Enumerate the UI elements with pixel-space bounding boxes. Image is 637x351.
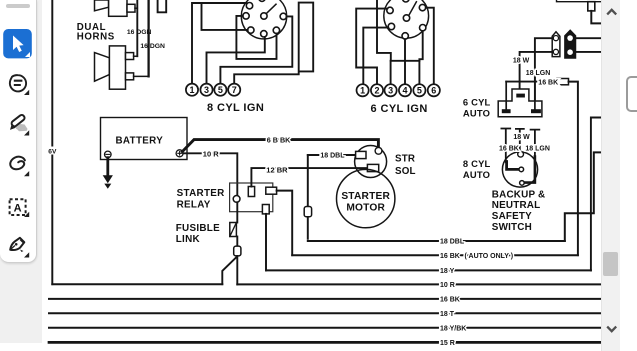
node 6 (6cyl) — [428, 84, 440, 96]
tool comment — [10, 75, 29, 95]
svg-text:16 BK: 16 BK — [440, 297, 460, 304]
svg-text:BATTERY: BATTERY — [116, 136, 164, 147]
wire 10 R (battery + to starter relay) — [183, 153, 237, 195]
svg-text:SOL: SOL — [395, 166, 416, 177]
label 16BK upper — [538, 79, 558, 86]
label 16 DGN first — [127, 29, 152, 36]
connector on 18DBL wire — [304, 207, 311, 217]
label 8 CYL AUTO — [463, 158, 491, 180]
resistor R1 — [557, 79, 569, 85]
label 18 DBL — [320, 152, 345, 159]
svg-text:18 DBL: 18 DBL — [440, 239, 465, 246]
label BATTERY — [116, 136, 164, 147]
svg-text:10 R: 10 R — [440, 282, 455, 289]
wire 18 DBL horizontal — [308, 154, 356, 156]
label 16 BK bus — [440, 297, 460, 304]
node 7 (8cyl) — [228, 84, 240, 96]
svg-text:18 LGN: 18 LGN — [526, 70, 551, 77]
bus wire 15 R — [49, 341, 602, 344]
8cyl ignition wires — [192, 3, 313, 84]
label 18LGN lower — [525, 145, 550, 152]
terminal on top box — [588, 2, 595, 11]
svg-text:16 BK: 16 BK — [538, 79, 558, 86]
label BACKUP & NEUTRAL SAFETY SWITCH — [492, 189, 546, 232]
label 12 BR — [266, 166, 288, 175]
node 5 (8cyl) — [214, 84, 226, 96]
node 2 (6cyl) — [371, 84, 383, 96]
label 6V — [48, 149, 57, 156]
label DUAL HORNS — [77, 22, 115, 42]
label STARTER MOTOR — [341, 191, 390, 213]
bus wire 18 Y — [266, 269, 591, 271]
wire 16 BK with resistor — [506, 81, 557, 83]
label 18W upper — [513, 58, 530, 65]
bus wire 18 Y/BK — [49, 327, 602, 329]
node 4 (6cyl) — [399, 84, 411, 96]
bus wire 18 DBL — [308, 240, 565, 242]
svg-text:12 BR: 12 BR — [266, 166, 288, 175]
label 15 R bus — [440, 340, 455, 347]
svg-text:FUSIBLE: FUSIBLE — [176, 223, 220, 234]
tool text box — [10, 199, 30, 217]
svg-text:16 DGN: 16 DGN — [140, 43, 165, 50]
node 5 (6cyl) — [413, 84, 425, 96]
svg-text:16 BK: 16 BK — [499, 145, 519, 152]
bus wire 18 T — [49, 312, 602, 314]
svg-text:NEUTRAL: NEUTRAL — [492, 200, 541, 211]
svg-text:STARTER: STARTER — [341, 191, 390, 202]
label 18 Y/BK bus — [440, 325, 466, 332]
starter solenoid U2 — [355, 146, 387, 178]
label 16BK lower — [499, 145, 519, 152]
svg-text:18 T: 18 T — [440, 311, 455, 318]
node 3 (6cyl) — [385, 84, 397, 96]
svg-text:1: 1 — [189, 85, 194, 95]
svg-text:18 DBL: 18 DBL — [320, 152, 345, 159]
wire 6V feed vertical — [51, 0, 53, 284]
connector P2 (male, solid) — [565, 30, 576, 58]
wire horn feed 2 — [147, 0, 149, 76]
6cyl ignition wires — [356, 0, 434, 84]
node 3 (8cyl) — [200, 84, 212, 96]
svg-text:2: 2 — [374, 86, 379, 96]
svg-text:STARTER: STARTER — [177, 188, 225, 199]
6cyl auto neutral switch S1 — [498, 76, 542, 117]
svg-text:5: 5 — [417, 86, 422, 96]
svg-text:4: 4 — [402, 86, 407, 96]
svg-text:7: 7 — [232, 85, 237, 95]
label 10 R bus — [440, 282, 455, 289]
svg-text:STR: STR — [395, 154, 415, 165]
top right box stub — [557, 0, 603, 2]
wire 16 BK to auto-only bus — [569, 82, 578, 256]
svg-text:18 W: 18 W — [513, 58, 530, 65]
wire from top terminal to right edge — [591, 11, 602, 24]
wire horn feed 1 — [136, 0, 138, 56]
tool lasso — [10, 157, 29, 177]
starter relay K1 — [230, 183, 277, 214]
starter motor M1 — [337, 169, 395, 227]
wire 18 DBL riser — [307, 155, 309, 239]
bus wire 16 BK auto only — [292, 254, 578, 256]
label 18 T bus — [440, 311, 455, 318]
svg-text:8 CYL IGN: 8 CYL IGN — [207, 102, 264, 114]
horn H2 (bottom) — [95, 46, 149, 89]
svg-text:16 DGN: 16 DGN — [127, 29, 152, 36]
svg-text:( AUTO ONLY ): ( AUTO ONLY ) — [465, 253, 514, 260]
svg-text:AUTO: AUTO — [463, 169, 490, 180]
label 16 DGN second — [140, 43, 165, 50]
label 6 CYL IGN — [371, 103, 428, 115]
svg-text:18 Y/BK: 18 Y/BK — [440, 325, 466, 332]
wire relay to 18 Y bus — [265, 214, 267, 271]
8cyl distributor cap — [241, 0, 286, 39]
svg-text:6 CYL IGN: 6 CYL IGN — [371, 103, 428, 115]
svg-text:LINK: LINK — [176, 234, 201, 245]
label 8 CYL IGN — [207, 102, 264, 114]
wire 10R to bus with branch — [222, 256, 237, 285]
wire 18Y right riser — [591, 118, 602, 271]
wire below fusible link — [236, 237, 238, 247]
svg-text:6 CYL: 6 CYL — [463, 97, 491, 108]
connector on 10R wire — [234, 246, 241, 256]
svg-text:6 B BK: 6 B BK — [267, 136, 291, 145]
svg-text:RELAY: RELAY — [177, 200, 211, 211]
svg-text:18 Y: 18 Y — [440, 268, 455, 275]
wire 12 BR (relay to solenoid) — [251, 168, 367, 186]
svg-text:BACKUP &: BACKUP & — [492, 189, 546, 200]
svg-text:10 R: 10 R — [203, 149, 219, 158]
label 6 CYL AUTO — [463, 97, 491, 119]
svg-text:18 W: 18 W — [513, 134, 530, 141]
label 10 R — [203, 149, 219, 158]
ground symbol — [103, 158, 113, 189]
label 18LGN upper — [526, 70, 551, 77]
fusible link F1 — [230, 223, 237, 237]
svg-text:HORNS: HORNS — [77, 31, 115, 42]
label 6 B BK — [267, 136, 291, 145]
bus wire 16 BK — [49, 298, 602, 300]
svg-text:16 BK: 16 BK — [440, 253, 460, 260]
svg-text:AUTO: AUTO — [463, 108, 490, 119]
svg-text:18 LGN: 18 LGN — [525, 145, 550, 152]
connector P2 to right edge wires — [576, 38, 603, 52]
wire relay to 16 BK bus — [277, 191, 293, 256]
label 16 BK auto only — [440, 253, 513, 260]
label STR SOL — [395, 154, 416, 178]
label 18W lower — [513, 134, 530, 141]
horn relay bottom stub — [158, 0, 167, 12]
svg-text:5: 5 — [218, 85, 223, 95]
tool signature pen — [10, 238, 29, 258]
svg-text:3: 3 — [388, 86, 393, 96]
node 1 (6cyl) — [357, 84, 369, 96]
wire 18DBL right riser — [565, 152, 602, 241]
wire 6 B BK (battery + to solenoid, heavy) — [182, 140, 378, 152]
wire 10R through relay — [236, 202, 238, 222]
horn H1 (top, cut off) — [95, 0, 138, 16]
node 1 (8cyl) — [186, 84, 198, 96]
label FUSIBLE LINK — [176, 223, 220, 245]
8cyl auto wire stubs with T-bars — [501, 129, 539, 163]
svg-text:1: 1 — [360, 86, 365, 96]
tool pencil — [10, 114, 29, 136]
bus wire 10 R — [52, 283, 601, 285]
label STARTER RELAY — [177, 188, 225, 210]
svg-text:SAFETY: SAFETY — [492, 211, 532, 222]
label 18 Y bus — [440, 268, 455, 275]
6cyl distributor cap — [384, 0, 429, 39]
svg-text:15 R: 15 R — [440, 340, 455, 347]
wire 18 LGN — [535, 38, 552, 110]
svg-text:SWITCH: SWITCH — [492, 222, 532, 233]
svg-text:A: A — [14, 203, 22, 215]
svg-text:6: 6 — [431, 86, 436, 96]
svg-text:8 CYL: 8 CYL — [463, 158, 491, 169]
battery B1 — [101, 118, 188, 160]
connector P1 (female) — [552, 32, 560, 57]
svg-text:3: 3 — [204, 85, 209, 95]
svg-text:6V: 6V — [48, 149, 57, 156]
wire 18 W — [520, 52, 553, 95]
svg-text:MOTOR: MOTOR — [346, 203, 385, 214]
tool select button (active) — [3, 29, 32, 58]
backup and neutral safety switch S2 — [502, 151, 537, 187]
label 18 DBL bus — [440, 239, 465, 246]
